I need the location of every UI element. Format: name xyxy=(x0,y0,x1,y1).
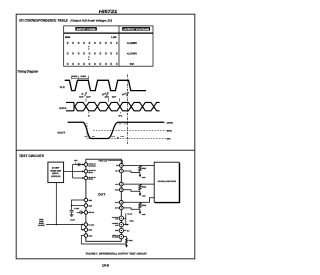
wire RSET xyxy=(124,237,127,239)
100% reference dashed line xyxy=(161,121,167,123)
wire VDD top xyxy=(108,160,123,162)
50% reference dashed line xyxy=(93,129,166,131)
ground VEE xyxy=(71,212,73,215)
svg-text:0%: 0% xyxy=(167,138,171,141)
DUT pin COMP2 xyxy=(119,222,123,226)
CLK edge annotation N+2 xyxy=(122,92,128,97)
capacitor C2 xyxy=(70,209,74,211)
wire IOUT to scope xyxy=(123,198,154,203)
DUT pin CLK xyxy=(84,170,88,174)
svg-text:CLK: CLK xyxy=(60,86,65,89)
table header INPUT CODE xyxy=(75,27,97,31)
DUT pin DATA IN xyxy=(84,163,88,167)
svg-text:50Ω: 50Ω xyxy=(142,167,147,170)
svg-text:WORD GEN: WORD GEN xyxy=(50,170,61,173)
svg-text:100%: 100% xyxy=(167,121,174,124)
svg-text:10-BIT: 10-BIT xyxy=(52,167,61,170)
wire IOUTB return xyxy=(123,208,140,209)
capacitor C1 xyxy=(77,163,79,166)
wire FS ADJ stub xyxy=(46,224,83,226)
svg-text:tPW1: tPW1 xyxy=(72,75,77,78)
wire IOUTB return xyxy=(123,171,140,172)
page frame xyxy=(16,14,195,259)
DUT pin CLKB xyxy=(84,176,88,180)
DUT pin VD xyxy=(119,164,123,168)
ground stub xyxy=(139,209,141,211)
CLK edge annotation N xyxy=(81,93,84,97)
wire generator drop xyxy=(55,183,57,225)
wire clock stub xyxy=(73,170,83,172)
capacitor C3 series to REF IN xyxy=(77,211,81,213)
svg-text:10-5: 10-5 xyxy=(102,264,109,268)
wire VEE2 supply xyxy=(72,205,85,207)
signal source bus xyxy=(80,225,82,230)
svg-text:Timing Diagram: Timing Diagram xyxy=(17,70,38,74)
wire generator to DUT bus xyxy=(64,170,73,172)
svg-text:LSB: LSB xyxy=(111,36,116,39)
svg-text:I/O CORRESPONDENCE TABLE: I/O CORRESPONDENCE TABLE xyxy=(19,18,68,22)
svg-text:OSCILLOSCOPE: OSCILLOSCOPE xyxy=(158,180,177,183)
oscilloscope box xyxy=(154,162,179,202)
wire IOUT to scope xyxy=(123,164,154,166)
ground RSET stub xyxy=(126,243,128,245)
DUT pin VEE1 xyxy=(84,198,88,202)
fall edge reference dashed line xyxy=(86,123,88,140)
section divider line xyxy=(16,149,195,151)
ellipsis dots 1 xyxy=(88,46,89,47)
wire COMP2 out xyxy=(124,224,128,226)
wire IOUT to scope xyxy=(123,183,154,185)
svg-text:HI5721: HI5721 xyxy=(99,9,118,14)
DUT pin IOUT3 xyxy=(119,200,123,204)
ground arrow xyxy=(139,175,142,178)
svg-text:50Ω: 50Ω xyxy=(142,204,147,207)
svg-text:DATA: DATA xyxy=(59,107,66,110)
DUT pin DGND xyxy=(84,234,88,238)
svg-text:50Ω: 50Ω xyxy=(142,186,147,189)
DUT pin REF xyxy=(84,228,88,232)
DUT pin REFOUT xyxy=(119,228,123,232)
NC stub xyxy=(124,230,127,232)
VDD decoupling wire xyxy=(73,164,85,166)
table outer border xyxy=(64,26,153,66)
DUT box xyxy=(86,159,121,241)
svg-text:INPUT CODE: INPUT CODE xyxy=(77,28,97,31)
ellipsis dots 2 xyxy=(88,56,89,57)
DATA bus eye pattern xyxy=(66,102,160,110)
svg-text:(ECL: (ECL xyxy=(52,172,60,175)
wire ground return xyxy=(81,236,126,245)
DUT pin COMP1 xyxy=(119,216,123,220)
0% reference dashed line xyxy=(109,138,167,140)
resistor 50 ohm xyxy=(139,203,141,209)
svg-text:LEVELS): LEVELS) xyxy=(51,175,61,178)
DUT pin REF IN xyxy=(84,211,88,215)
svg-text:SOURCE: SOURCE xyxy=(38,224,45,227)
svg-text:MSB: MSB xyxy=(65,36,71,39)
wire IOUTB return xyxy=(123,190,140,191)
DUT pin VEE2 xyxy=(84,204,88,208)
svg-text:TEST CIRCUITS: TEST CIRCUITS xyxy=(19,154,45,158)
junction generator drop xyxy=(56,224,57,225)
wire VEE supply xyxy=(72,200,85,210)
DUT pin IOUTB xyxy=(119,188,123,192)
DUT pin IOUT xyxy=(119,169,123,173)
wire COMP node xyxy=(124,213,126,224)
ground stub xyxy=(139,172,141,174)
resistor RSET xyxy=(126,238,128,243)
ground RSET arrow xyxy=(125,245,128,248)
generator bus xyxy=(72,165,74,179)
svg-text:50%: 50% xyxy=(167,130,172,133)
svg-text:IOUT: IOUT xyxy=(58,132,66,135)
svg-text:FIGURE 7. DIFFERENTIAL OUTPUT: FIGURE 7. DIFFERENTIAL OUTPUT TEST CIRCU… xyxy=(86,253,147,256)
ground arrow xyxy=(139,212,142,215)
wire REF stub xyxy=(81,229,83,231)
word generator box xyxy=(48,162,64,183)
svg-text:0V: 0V xyxy=(130,62,135,66)
svg-text:+1.998V: +1.998V xyxy=(127,41,138,45)
table header OUTPUT VOLTAGE xyxy=(122,27,150,31)
DUT pin IOUTB2 xyxy=(119,206,123,210)
settling top marks xyxy=(119,123,122,125)
svg-text:+5V (V: +5V (V xyxy=(98,159,108,162)
DUT pin RSET xyxy=(119,234,123,238)
wire clock-b stub xyxy=(73,177,83,179)
svg-text:0.1μF: 0.1μF xyxy=(74,207,79,210)
timing reference dash-dot line xyxy=(126,75,128,145)
tPW dimension ticks xyxy=(71,76,73,80)
svg-text:DUT: DUT xyxy=(98,193,105,197)
CLK waveform xyxy=(65,80,146,90)
CLK edge annotation N+1 xyxy=(102,92,108,97)
IOUT waveform xyxy=(68,122,164,138)
svg-text:OUTPUT VOLTAGE: OUTPUT VOLTAGE xyxy=(123,28,149,31)
resistor 50 ohm xyxy=(139,166,141,172)
ground stub xyxy=(139,191,141,193)
DUT pin FS ADJ xyxy=(84,223,88,227)
resistor 50 ohm xyxy=(139,185,141,191)
table column divider xyxy=(118,26,120,66)
table header separator xyxy=(64,32,153,34)
junction VEE node xyxy=(71,205,72,206)
ground arrow xyxy=(139,193,142,196)
svg-text:(Output Full Scale Voltage: 2V: (Output Full Scale Voltage: 2V) xyxy=(71,18,113,22)
DUT pin IOUT2 xyxy=(119,182,123,186)
svg-text:+1.000V: +1.000V xyxy=(127,51,138,55)
